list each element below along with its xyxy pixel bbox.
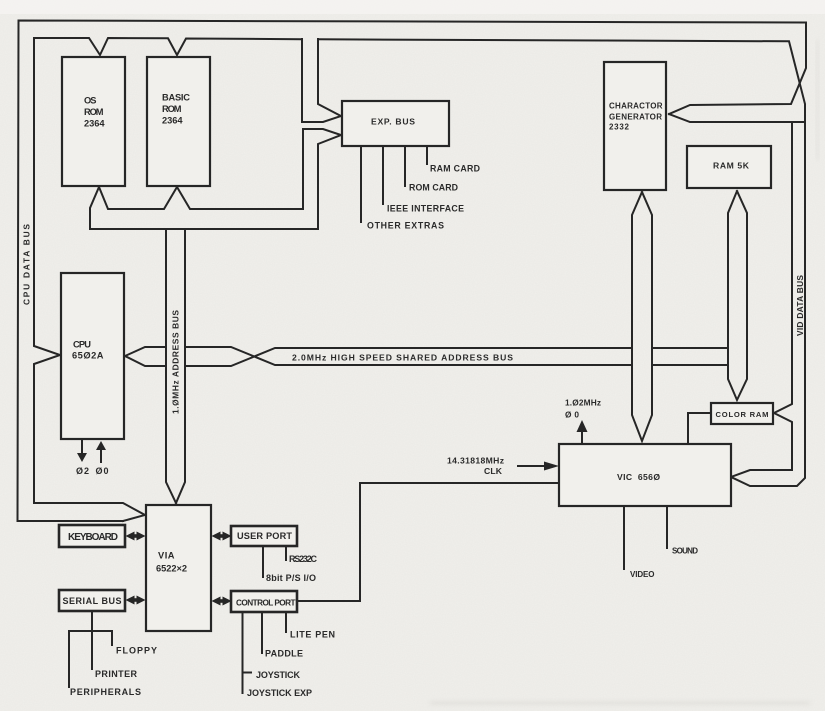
svg-text:COLOR RAM: COLOR RAM: [716, 410, 769, 419]
svg-text:8bit P/S I/O: 8bit P/S I/O: [266, 573, 316, 583]
svg-text:6522×2: 6522×2: [156, 564, 187, 574]
svg-text:RS232C: RS232C: [289, 554, 318, 564]
svg-text:EXP. BUS: EXP. BUS: [371, 117, 415, 127]
svg-text:VIDEO: VIDEO: [630, 570, 655, 579]
svg-text:2364: 2364: [84, 119, 105, 129]
svg-text:FLOPPY: FLOPPY: [116, 646, 157, 656]
svg-text:ROM: ROM: [162, 104, 182, 114]
svg-text:65Ø2A: 65Ø2A: [72, 351, 104, 361]
svg-text:PERIPHERALS: PERIPHERALS: [70, 687, 141, 697]
svg-text:JOYSTICK: JOYSTICK: [256, 670, 301, 680]
svg-text:OTHER EXTRAS: OTHER EXTRAS: [367, 221, 444, 231]
svg-text:GENERATOR: GENERATOR: [609, 113, 662, 122]
svg-text:PRINTER: PRINTER: [95, 669, 138, 679]
svg-text:RAM 5K: RAM 5K: [713, 161, 750, 171]
svg-text:KEYBOARD: KEYBOARD: [68, 532, 118, 543]
svg-text:BASIC: BASIC: [162, 93, 190, 103]
svg-text:CPU: CPU: [73, 340, 91, 350]
svg-text:VID DATA BUS: VID DATA BUS: [795, 275, 805, 336]
svg-text:14.31818MHz: 14.31818MHz: [447, 456, 504, 466]
svg-text:JOYSTICK EXP: JOYSTICK EXP: [247, 688, 312, 698]
svg-text:ROM: ROM: [84, 107, 104, 117]
svg-text:RAM CARD: RAM CARD: [430, 164, 480, 174]
svg-text:1.Ø2MHz: 1.Ø2MHz: [565, 398, 601, 408]
svg-text:CLK: CLK: [484, 466, 503, 476]
svg-text:SOUND: SOUND: [672, 547, 698, 556]
svg-text:2364: 2364: [162, 116, 183, 126]
svg-text:1.ØMHz ADDRESS BUS: 1.ØMHz ADDRESS BUS: [171, 310, 181, 414]
svg-text:VIA: VIA: [158, 551, 175, 561]
svg-text:LITE PEN: LITE PEN: [290, 630, 335, 640]
svg-text:Ø 0: Ø 0: [565, 410, 579, 420]
svg-text:PADDLE: PADDLE: [265, 649, 303, 659]
svg-text:2332: 2332: [609, 123, 630, 132]
svg-text:CONTROL PORT: CONTROL PORT: [236, 599, 296, 608]
svg-text:SERIAL BUS: SERIAL BUS: [63, 596, 122, 606]
svg-text:Ø2: Ø2: [76, 466, 89, 476]
svg-text:OS: OS: [84, 96, 97, 106]
svg-text:USER PORT: USER PORT: [237, 531, 292, 541]
svg-text:IEEE INTERFACE: IEEE INTERFACE: [387, 204, 464, 214]
svg-text:CHARACTOR: CHARACTOR: [609, 102, 663, 111]
svg-text:2.0MHz HIGH SPEED SHARED ADDRE: 2.0MHz HIGH SPEED SHARED ADDRESS BUS: [292, 353, 513, 363]
svg-text:Ø0: Ø0: [96, 466, 109, 476]
svg-text:ROM CARD: ROM CARD: [409, 183, 458, 193]
svg-text:VIC 656Ø: VIC 656Ø: [617, 472, 660, 482]
